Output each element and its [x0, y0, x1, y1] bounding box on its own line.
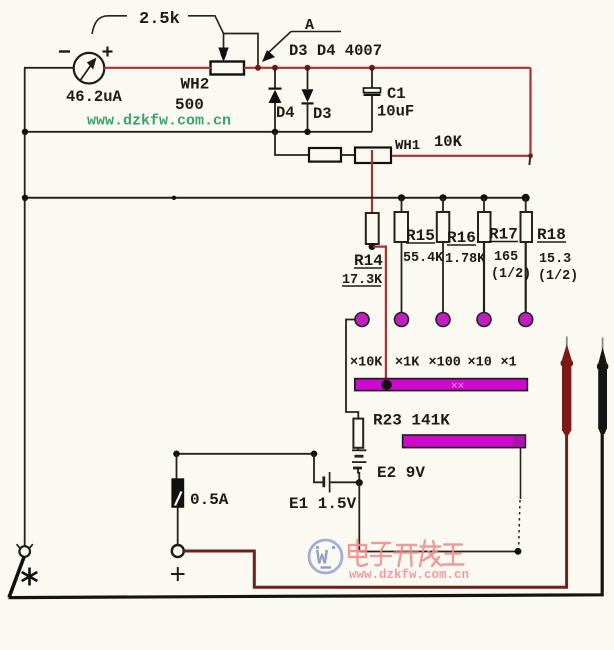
node [172, 196, 176, 200]
node [173, 451, 180, 458]
label R14 [354, 252, 383, 270]
wire (x10K contact to R23) [346, 320, 358, 420]
svg-text:www.dzkfw.com.cn: www.dzkfw.com.cn [349, 568, 469, 582]
probe red [561, 337, 573, 436]
label 17.3K [342, 273, 383, 288]
wire (red R14 to rotary wiper) [373, 247, 386, 382]
rotary wiper band 1 [355, 379, 528, 393]
svg-text:0.5A: 0.5A [190, 491, 229, 509]
node (R14 bottom junction) [369, 243, 376, 250]
potentiometer WH1 10K [355, 148, 391, 164]
svg-text:E1 1.5V: E1 1.5V [289, 495, 357, 513]
wire (E1 top feed line) [177, 453, 315, 455]
svg-text:E2 9V: E2 9V [377, 464, 425, 482]
svg-text:C1: C1 [387, 85, 406, 103]
contact x10 [477, 313, 491, 327]
node A callout [262, 17, 341, 62]
battery E1 1.5V [314, 454, 359, 493]
node (D4 bottom) [272, 129, 278, 135]
svg-text:R23 141K: R23 141K [373, 412, 450, 430]
svg-text:2.5k: 2.5k [139, 10, 180, 29]
fuse 0.5A [172, 454, 184, 545]
node (R18 top) [522, 194, 530, 202]
switch lever [9, 557, 24, 598]
resistor R16 1.78K [437, 198, 450, 313]
wire (red WH1 wiper down to R14) [371, 150, 373, 214]
resistor R15 55.4K [395, 198, 409, 313]
wire (maroon positive lead) [184, 431, 567, 587]
node (R17 top) [480, 194, 487, 201]
meter M 46.2uA [59, 47, 113, 84]
node [515, 548, 522, 555]
svg-text:WH1: WH1 [395, 138, 420, 154]
diode D4 [269, 68, 282, 132]
svg-text:165: 165 [494, 250, 518, 265]
battery E2 9V [352, 448, 366, 481]
wire (black negative lead bottom) [9, 432, 603, 598]
node [22, 195, 28, 201]
node (loop junction) [255, 65, 261, 71]
watermark logo W [309, 540, 342, 573]
node (C1 top) [369, 65, 375, 71]
svg-text:10uF: 10uF [377, 103, 414, 121]
wire (junction down) [358, 483, 360, 552]
svg-text:15.3: 15.3 [539, 252, 571, 267]
diode D3 [302, 68, 314, 132]
wire (band2 right drop, part solid part dotted) [519, 448, 521, 548]
node (WH1 right corner) [528, 153, 533, 158]
node [311, 451, 318, 458]
svg-text:D3 D4 4007: D3 D4 4007 [289, 42, 382, 60]
node (R16 top) [439, 194, 446, 201]
label R15 [406, 227, 435, 245]
node (E1/E2 junction) [356, 479, 363, 486]
svg-text:×10K: ×10K [350, 356, 383, 371]
contact x1 [519, 313, 533, 327]
label + [171, 567, 185, 581]
svg-text:46.2uA: 46.2uA [66, 88, 123, 106]
svg-text:D3: D3 [313, 105, 332, 123]
svg-text:10K: 10K [434, 133, 463, 151]
wire [341, 154, 356, 156]
svg-text:×1: ×1 [501, 356, 517, 371]
node (R15 top) [398, 194, 405, 201]
svg-text:www.dzkfw.com.cn: www.dzkfw.com.cn [87, 113, 231, 130]
wire (red right vertical) [529, 68, 531, 156]
label R17 [489, 226, 518, 244]
resistor R14 17.3K [366, 213, 379, 244]
wire (bus line y198) [25, 197, 526, 199]
capacitor C1 10uF [364, 68, 381, 132]
resistor R18 15.3 (1/2) [521, 198, 533, 313]
probe black [597, 338, 608, 435]
svg-text:(1/2): (1/2) [538, 269, 578, 284]
node (D3 bottom) [304, 129, 310, 135]
svg-text:D4: D4 [276, 104, 295, 122]
svg-text:×100: ×100 [429, 356, 461, 371]
label * [22, 568, 38, 586]
node (rail-bus junction) [22, 129, 28, 135]
label R16 [447, 229, 476, 247]
wire (to band2 return) [359, 551, 518, 553]
wire (left rail vertical) [24, 68, 26, 547]
potentiometer WH2 500 [211, 34, 259, 75]
svg-text:55.4K: 55.4K [403, 251, 444, 266]
resistor R23 [353, 419, 363, 448]
wire (red to WH1 right) [391, 155, 531, 157]
wire (meter left stub) [24, 67, 74, 69]
rotary wiper band 2 [403, 435, 526, 448]
wire (drop to WH1 branch) [275, 132, 309, 155]
node (D3 top) [305, 65, 311, 71]
svg-text:1.78K: 1.78K [445, 252, 486, 267]
resistor R17 165 (1/2) [478, 198, 491, 313]
terminal + (positive jack) [172, 545, 184, 557]
contact x1K [395, 313, 409, 327]
terminal (negative jack with ticks) [17, 544, 33, 557]
svg-text:×10: ×10 [468, 356, 492, 371]
svg-text:500: 500 [175, 96, 204, 114]
svg-text:×1K: ×1K [395, 356, 420, 371]
wire (red stub) [529, 157, 530, 165]
contact x10K [355, 313, 369, 327]
contact x100 [436, 313, 450, 327]
svg-text:××: ×× [451, 381, 465, 393]
svg-text:WH2: WH2 [181, 76, 210, 94]
wire (red: meter to WH2) [104, 67, 211, 69]
label R18 [537, 226, 566, 244]
watermark chinese characters [349, 540, 464, 566]
node (D4 top) [272, 65, 278, 71]
wire (red top rail WH2 to right corner) [244, 67, 531, 69]
wire (bus line y132) [25, 131, 372, 133]
node (wiper contact dot) [381, 380, 391, 390]
label 2.5k with leaders [92, 10, 224, 34]
resistor (series with WH1) [309, 148, 341, 162]
